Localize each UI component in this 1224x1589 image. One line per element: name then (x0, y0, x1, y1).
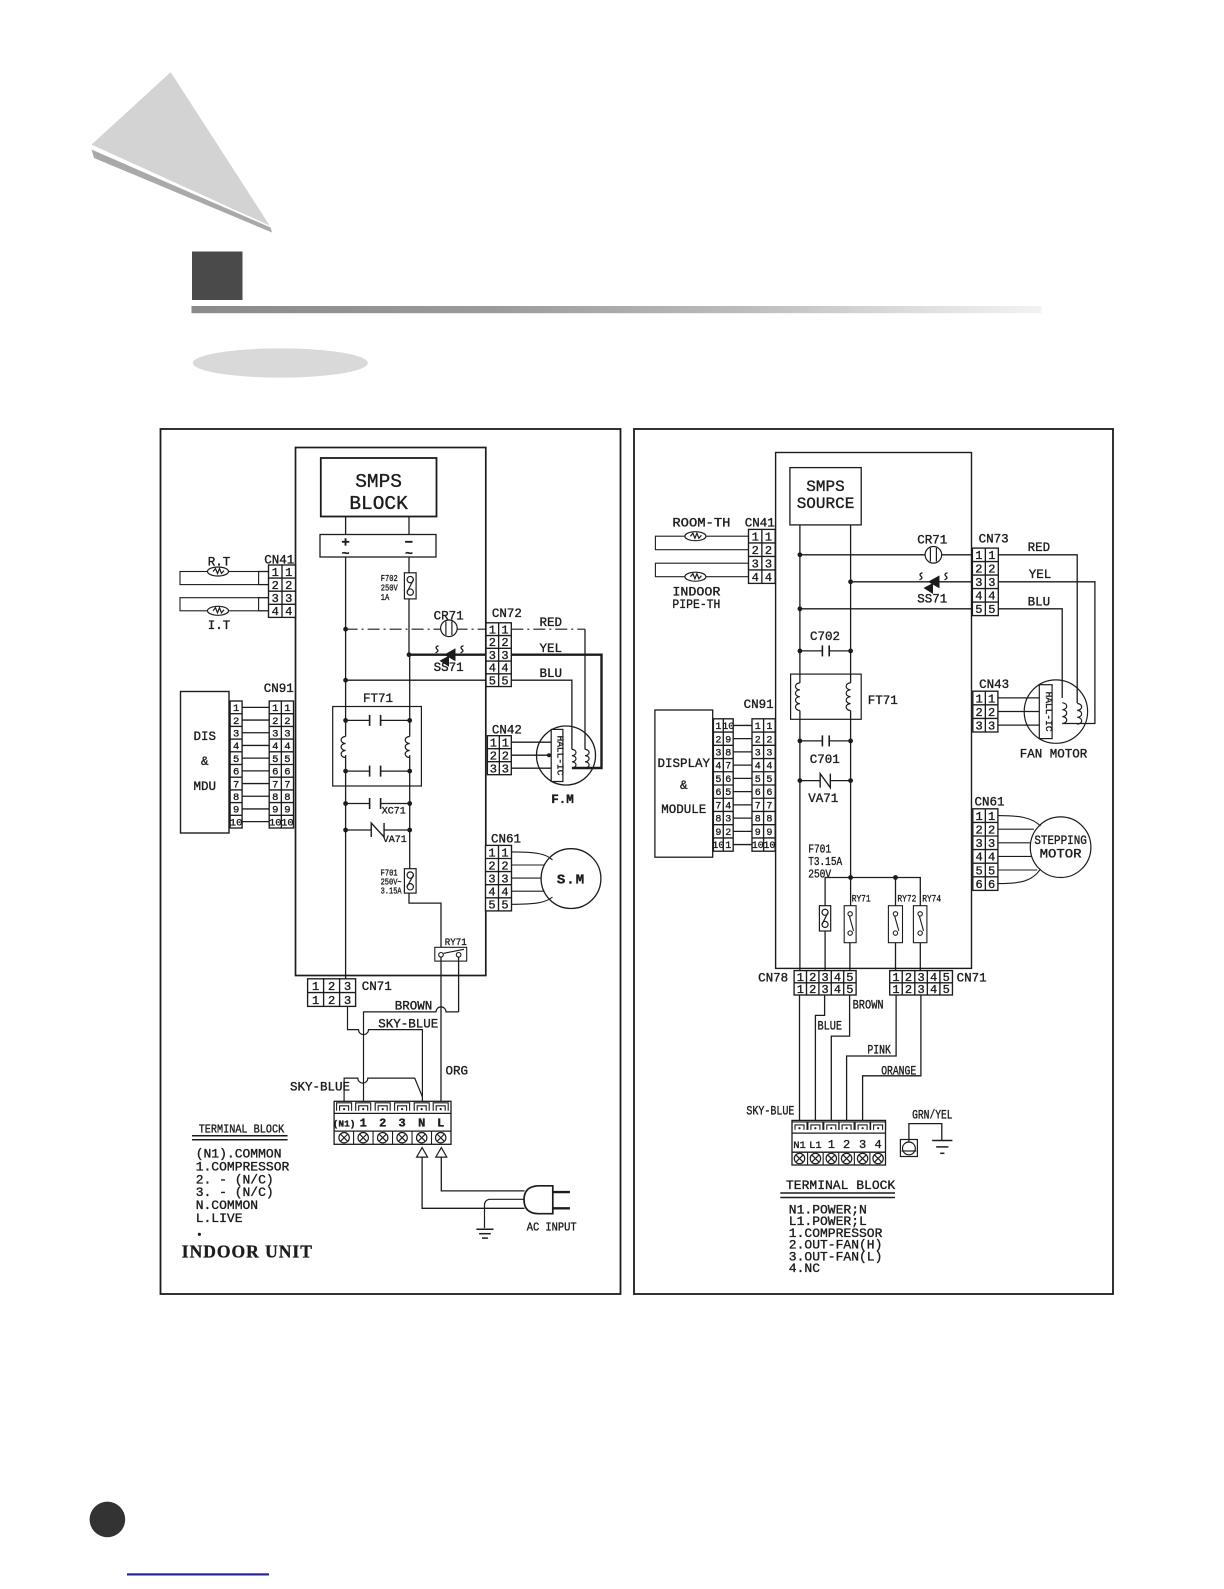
svg-text:3: 3 (344, 980, 351, 994)
connector CN78 (794, 971, 856, 995)
svg-text:6: 6 (284, 767, 290, 779)
svg-text:1: 1 (975, 549, 982, 563)
wires CN42 to hall IC (511, 741, 551, 743)
varistor VA71 (outdoor) (800, 774, 851, 788)
FT71 top capacitor (346, 715, 410, 726)
svg-text:3: 3 (752, 557, 759, 571)
earth ground symbol (outdoor) (932, 1141, 952, 1154)
F.M right winding (585, 749, 589, 768)
wires DIS/MDU to CN91 (242, 706, 269, 708)
svg-text:CN71: CN71 (362, 980, 392, 994)
svg-text:3: 3 (975, 576, 982, 590)
svg-text:250V: 250V (808, 868, 832, 882)
wire F701 to CN78-3 (824, 931, 826, 971)
svg-text:4: 4 (988, 590, 995, 604)
svg-text:F.M: F.M (551, 793, 574, 807)
svg-text:1: 1 (988, 692, 995, 706)
DISPLAY & MODULE block (655, 710, 713, 857)
connector CN91 (outdoor) (752, 719, 775, 851)
triac SS71 (outdoor) (924, 575, 940, 594)
wire SMPS source left output (799, 525, 801, 683)
svg-text:1: 1 (988, 549, 995, 563)
wire YEL net (outdoor) (851, 581, 973, 583)
FT71 right winding (outdoor) (846, 683, 850, 711)
arrow into terminal L (436, 1148, 447, 1158)
svg-text:CN41: CN41 (745, 517, 775, 531)
wire RY74 to CN71-3 (919, 943, 921, 971)
thermistor I.T probe (180, 598, 259, 611)
svg-text:&: & (201, 755, 209, 769)
dash-dot net to CN72-1 (346, 628, 486, 630)
svg-text:L1: L1 (809, 1140, 822, 1152)
svg-text:9: 9 (766, 828, 772, 839)
svg-text:S.M: S.M (557, 873, 585, 889)
svg-text:1: 1 (715, 722, 721, 733)
svg-text:1: 1 (765, 530, 772, 544)
svg-text:4: 4 (285, 605, 292, 619)
svg-text:8: 8 (725, 749, 731, 760)
wires R.T to CN41 (259, 571, 269, 573)
varistor VA71 (346, 823, 410, 837)
DIS/MDU pin header (230, 701, 242, 828)
svg-text:3: 3 (344, 994, 351, 1008)
svg-text:1: 1 (725, 841, 731, 852)
svg-text:7: 7 (284, 779, 290, 791)
corner triangle decoration (92, 72, 270, 226)
svg-text:1: 1 (828, 1138, 835, 1152)
svg-text:10: 10 (752, 841, 764, 852)
svg-text:5: 5 (766, 775, 772, 786)
svg-text:5: 5 (501, 899, 508, 913)
svg-text:CN43: CN43 (979, 678, 1009, 692)
svg-text:2: 2 (843, 1138, 850, 1152)
wire earth tap to plug (485, 1199, 525, 1228)
svg-text:SKY-BLUE: SKY-BLUE (290, 1081, 350, 1095)
wire SKY-BLUE net upper (348, 1006, 423, 1101)
terminal block (indoor) (334, 1101, 451, 1144)
svg-text:3: 3 (988, 720, 995, 734)
rectifier output block +~ -~ (320, 535, 436, 562)
svg-text:8: 8 (755, 815, 761, 826)
svg-text:8: 8 (766, 815, 772, 826)
svg-text:CN61: CN61 (975, 796, 1005, 810)
svg-text:5: 5 (715, 775, 721, 786)
svg-text:BLU: BLU (1028, 596, 1051, 610)
svg-text:9: 9 (272, 805, 278, 817)
wire RY72 to CN71-1 (895, 943, 897, 971)
fan motor right winding (outdoor) (1077, 704, 1081, 725)
fuse F701 (indoor) (404, 869, 416, 893)
wire PINK net (847, 995, 897, 1120)
svg-text:C702: C702 (810, 630, 840, 644)
svg-text:2: 2 (725, 828, 731, 839)
svg-text:8: 8 (272, 792, 278, 804)
svg-text:10: 10 (712, 841, 724, 852)
svg-text:1: 1 (285, 566, 292, 580)
wire SS71 node down to FT71 (409, 655, 411, 737)
svg-text:(N1): (N1) (333, 1119, 356, 1130)
svg-text:6: 6 (766, 788, 772, 799)
svg-text:1: 1 (284, 703, 290, 715)
filter FT71 box (333, 707, 422, 787)
svg-text:2: 2 (488, 859, 495, 873)
thermistor INDOOR PIPE-TH probe (655, 563, 748, 577)
svg-text:5: 5 (988, 864, 995, 878)
svg-text:1: 1 (975, 810, 982, 824)
connector CN61 (outdoor) (973, 809, 998, 891)
SMPS source block (790, 468, 861, 525)
svg-text:1: 1 (766, 722, 772, 733)
svg-text:1: 1 (312, 994, 319, 1008)
section ellipse decoration (193, 348, 368, 377)
right panel frame (outdoor unit) (634, 429, 1113, 1294)
plug prong lower (553, 1207, 570, 1209)
wire AC line left (from + terminal) (345, 557, 347, 737)
fuse F702 (404, 573, 416, 599)
svg-text:10: 10 (281, 817, 294, 829)
connector CN73 (972, 548, 998, 616)
svg-text:TERMINAL BLOCK: TERMINAL BLOCK (199, 1124, 285, 1137)
earth screw symbol (900, 1140, 917, 1157)
wire SKY-BLUE net (outdoor) (799, 995, 801, 1120)
svg-text:HALL-IC: HALL-IC (1043, 692, 1054, 732)
svg-text:7: 7 (755, 801, 761, 812)
svg-text:CN72: CN72 (492, 607, 522, 621)
connector CN71 (outdoor) (890, 971, 953, 995)
svg-text:3: 3 (766, 749, 772, 760)
svg-text:2: 2 (905, 983, 912, 997)
svg-text:CN41: CN41 (264, 554, 294, 568)
svg-text:6: 6 (233, 767, 239, 779)
wire AC live to plug (441, 1157, 524, 1191)
svg-text:CN91: CN91 (264, 682, 294, 696)
svg-text:2: 2 (809, 983, 816, 997)
svg-text:4: 4 (272, 605, 279, 619)
svg-text:CN42: CN42 (492, 724, 522, 738)
svg-text:3: 3 (975, 720, 982, 734)
svg-text:CR71: CR71 (917, 534, 947, 548)
SMPS block U-IN (321, 458, 437, 517)
svg-text:3: 3 (725, 815, 731, 826)
wire SS71 net (thick) to CN72-3 (409, 654, 486, 656)
svg-text:7: 7 (715, 801, 721, 812)
svg-text:5: 5 (988, 603, 995, 617)
page number circle (90, 1502, 126, 1538)
svg-text:5: 5 (488, 899, 495, 913)
svg-text:3: 3 (975, 837, 982, 851)
wire RY71 left pin to terminal L (ORG) (440, 957, 442, 1101)
wires CN61 to S.M (512, 852, 553, 860)
svg-text:1: 1 (272, 566, 279, 580)
relay RY74 (913, 906, 927, 943)
svg-text:8: 8 (715, 815, 721, 826)
svg-text:BLOCK: BLOCK (349, 493, 408, 515)
svg-text:INDOOR UNIT: INDOOR UNIT (182, 1242, 313, 1262)
svg-text:4: 4 (488, 886, 495, 900)
connector CN71 (indoor) (308, 979, 356, 1007)
svg-text:2: 2 (328, 994, 335, 1008)
svg-text:9: 9 (715, 828, 721, 839)
svg-text:3: 3 (285, 592, 292, 606)
svg-text:RY74: RY74 (922, 895, 941, 906)
wire RED net (outdoor) (800, 554, 973, 556)
svg-text:L: L (437, 1117, 444, 1131)
FT71 bottom capacitor (346, 766, 410, 777)
svg-text:RED: RED (1028, 541, 1051, 555)
photocoupler CR71 (outdoor) (925, 547, 942, 564)
connector CN42 (487, 736, 511, 775)
svg-text:2: 2 (285, 579, 292, 593)
svg-text:&: & (680, 779, 688, 793)
svg-text:GRN/YEL: GRN/YEL (912, 1109, 953, 1123)
svg-text:4: 4 (755, 762, 761, 773)
svg-text:4: 4 (765, 571, 772, 585)
svg-text:I.T: I.T (208, 619, 231, 633)
wire RY72 top (895, 878, 897, 906)
svg-text:FAN MOTOR: FAN MOTOR (1020, 748, 1088, 762)
hall IC block (outdoor) (1039, 685, 1052, 739)
svg-text:1: 1 (501, 846, 508, 860)
svg-text:1: 1 (988, 810, 995, 824)
svg-text:5: 5 (755, 775, 761, 786)
outdoor PCB outline (776, 453, 972, 969)
FT71 left winding (outdoor) (795, 683, 799, 711)
svg-text:3: 3 (765, 557, 772, 571)
svg-text:3: 3 (398, 1117, 405, 1131)
connector CN41 (indoor) (269, 565, 296, 617)
wire BROWN net (364, 1007, 459, 1101)
svg-text:SOURCE: SOURCE (797, 495, 855, 513)
svg-text:4: 4 (975, 590, 982, 604)
indoor PCB outline (296, 448, 486, 976)
wire BLU net CN72-5 (346, 679, 486, 681)
svg-text:L.LIVE: L.LIVE (196, 1211, 243, 1226)
svg-text:4.NC: 4.NC (789, 1261, 820, 1276)
stepping motor (outdoor) (1030, 817, 1091, 878)
wire YEL to fan motor (thick) (511, 655, 601, 768)
svg-text:2: 2 (715, 735, 721, 746)
corner triangle decoration shadow (92, 150, 273, 233)
svg-text:YEL: YEL (1029, 568, 1052, 582)
wires module header to CN91 (outdoor) (733, 724, 752, 726)
svg-text:VA71: VA71 (808, 792, 838, 806)
svg-text:4: 4 (834, 983, 841, 997)
svg-text:N1: N1 (793, 1140, 806, 1152)
relay RY71 (indoor) (435, 947, 467, 961)
wire BLU to fan motor (outdoor) (998, 609, 1062, 698)
wires I.T to CN41 (259, 597, 269, 599)
fan motor (outdoor) (1024, 680, 1087, 743)
stepping motor S.M (541, 849, 601, 909)
svg-text:5: 5 (284, 754, 290, 766)
svg-text:3: 3 (272, 729, 278, 741)
wires CN61 to stepping motor (998, 816, 1041, 826)
svg-text:AC INPUT: AC INPUT (527, 1222, 577, 1235)
svg-text:6: 6 (272, 767, 278, 779)
junction fuse line / SS71 (407, 652, 412, 657)
svg-text:2: 2 (502, 750, 509, 764)
svg-text:SS71: SS71 (917, 593, 947, 607)
wire RY71 right pin down (458, 957, 460, 1012)
capacitor C702 (800, 645, 851, 656)
connector CN91 (indoor) (269, 701, 293, 828)
arrow into terminal N (417, 1148, 428, 1158)
wire SKY-BLUE net lower (344, 1078, 422, 1101)
wire RED to fan motor (511, 628, 585, 630)
svg-text:4: 4 (715, 762, 721, 773)
svg-text:4: 4 (284, 741, 290, 753)
hall IC block (F.M) (551, 729, 563, 781)
triac SS71 (440, 648, 456, 666)
svg-text:4: 4 (874, 1138, 881, 1152)
svg-text:3: 3 (501, 872, 508, 886)
svg-text:1A: 1A (381, 592, 390, 603)
svg-text:1: 1 (312, 980, 319, 994)
svg-text:8: 8 (233, 792, 239, 804)
svg-text:XC71: XC71 (382, 807, 406, 818)
svg-text:6: 6 (975, 878, 982, 892)
svg-text:5: 5 (233, 754, 239, 766)
svg-text:10: 10 (763, 841, 775, 852)
svg-text:4: 4 (501, 886, 508, 900)
svg-text:2: 2 (766, 735, 772, 746)
svg-text:CN91: CN91 (744, 698, 774, 712)
thermistor ROOM-TH probe (655, 536, 748, 550)
relay RY72 (888, 906, 902, 943)
wire AC neutral to plug (422, 1157, 524, 1208)
svg-text:BROWN: BROWN (853, 999, 884, 1013)
svg-text:7: 7 (233, 779, 239, 791)
svg-text:SKY-BLUE: SKY-BLUE (746, 1105, 794, 1119)
photocoupler CR71 (441, 620, 458, 637)
wire relay feed bus (825, 878, 920, 906)
wire F701 to relay RY71 (409, 893, 441, 947)
svg-text:5: 5 (975, 864, 982, 878)
DIS & MDU block (181, 692, 230, 834)
svg-text:CN73: CN73 (979, 533, 1009, 547)
junction AC left / CN72-5 (343, 678, 348, 683)
wire BROWN net (outdoor) (831, 995, 849, 1120)
svg-text:DISPLAY: DISPLAY (658, 757, 711, 771)
plug prong upper (553, 1191, 570, 1193)
svg-text:5: 5 (489, 674, 496, 688)
svg-text:3.15A: 3.15A (381, 886, 402, 897)
wire SMPS source right output (850, 525, 852, 683)
svg-text:2: 2 (765, 544, 772, 558)
svg-text:2: 2 (755, 735, 761, 746)
footer blue rule (127, 1573, 269, 1575)
svg-text:BLU: BLU (540, 667, 563, 681)
DISPLAY/MODULE pin header (713, 719, 733, 851)
wire AC line right (from - terminal to fuse) (408, 557, 410, 573)
svg-text:2: 2 (988, 563, 995, 577)
wire YEL to fan motor (outdoor) (998, 582, 1095, 724)
svg-text:10: 10 (722, 722, 734, 733)
svg-text:6: 6 (715, 788, 721, 799)
svg-text:MDU: MDU (194, 780, 217, 794)
svg-text:2: 2 (272, 716, 278, 728)
connector CN61 (indoor) (486, 845, 512, 911)
svg-text:7: 7 (272, 779, 278, 791)
svg-text:5: 5 (272, 754, 278, 766)
svg-text:2: 2 (272, 579, 279, 593)
svg-text:ROOM-TH: ROOM-TH (672, 517, 730, 531)
wire BLU to fan motor (511, 680, 572, 749)
svg-text:2: 2 (501, 859, 508, 873)
svg-text:1: 1 (755, 722, 761, 733)
svg-text:TERMINAL BLOCK: TERMINAL BLOCK (786, 1178, 895, 1193)
connector CN72 (486, 623, 511, 687)
wire SMPS block to rectifier left (345, 517, 347, 535)
earth ground symbol (476, 1229, 493, 1238)
svg-text:9: 9 (233, 805, 239, 817)
svg-text:4: 4 (988, 851, 995, 865)
svg-text:3: 3 (284, 729, 290, 741)
svg-text:CN71: CN71 (957, 972, 987, 986)
wire RY71 main line down (850, 878, 852, 906)
svg-text:ORG: ORG (446, 1065, 469, 1079)
capacitor C701 (800, 735, 851, 746)
svg-text:1: 1 (490, 737, 497, 751)
svg-text:BLUE: BLUE (818, 1020, 843, 1034)
svg-text:6: 6 (755, 788, 761, 799)
svg-text:RY71: RY71 (852, 895, 871, 906)
svg-text:10: 10 (230, 817, 243, 829)
wire SMPS block to rectifier right (408, 517, 410, 535)
wire fuse F702 down (408, 599, 410, 655)
relay RY71 (outdoor) (844, 906, 856, 943)
svg-text:2: 2 (328, 980, 335, 994)
svg-text:5: 5 (943, 983, 950, 997)
svg-text:SS71: SS71 (434, 661, 464, 675)
svg-text:4: 4 (233, 741, 239, 753)
fan motor F.M (537, 726, 596, 785)
svg-text:6: 6 (725, 775, 731, 786)
svg-text:1: 1 (488, 846, 495, 860)
svg-text:SMPS: SMPS (806, 478, 844, 496)
svg-text:DIS: DIS (194, 730, 217, 744)
svg-text:3: 3 (502, 763, 509, 777)
wires CN43 to hall IC (outdoor) (998, 697, 1039, 699)
FT71 right inductor (405, 737, 410, 758)
terminal block (outdoor) (792, 1120, 886, 1165)
svg-text:9: 9 (755, 828, 761, 839)
svg-text:8: 8 (284, 792, 290, 804)
svg-text:3: 3 (488, 872, 495, 886)
svg-text:MODULE: MODULE (661, 803, 706, 817)
svg-text:1: 1 (502, 737, 509, 751)
svg-text:C701: C701 (810, 753, 840, 767)
svg-text:SMPS: SMPS (355, 471, 402, 493)
svg-text:1: 1 (360, 1117, 367, 1131)
filter FT71 box (outdoor) (791, 674, 862, 719)
left panel frame (indoor unit) (161, 429, 621, 1294)
svg-text:2: 2 (975, 824, 982, 838)
wire AC right line VA71 to F701 (409, 755, 411, 869)
svg-text:5: 5 (725, 788, 731, 799)
connector CN43 (973, 691, 998, 732)
svg-text:7: 7 (766, 801, 772, 812)
svg-text:HALL-IC: HALL-IC (555, 736, 566, 776)
svg-text:4: 4 (752, 571, 759, 585)
svg-text:4: 4 (930, 983, 937, 997)
svg-text:PIPE-TH: PIPE-TH (672, 598, 720, 612)
svg-text:FT71: FT71 (363, 692, 393, 706)
svg-text:7: 7 (725, 762, 731, 773)
svg-text:2: 2 (490, 750, 497, 764)
svg-text:4: 4 (975, 851, 982, 865)
svg-text:4: 4 (766, 762, 772, 773)
